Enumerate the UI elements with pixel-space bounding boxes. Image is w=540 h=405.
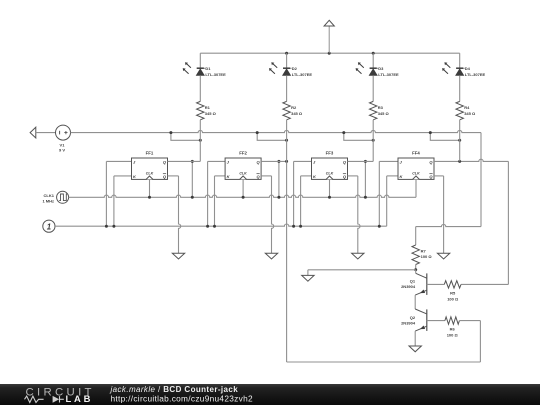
ground Qbar3 — [352, 253, 364, 259]
flip-flop FF3 — [312, 151, 348, 180]
svg-text:9 V: 9 V — [59, 148, 65, 153]
wire R7 bottom lead — [415, 265, 417, 270]
junction J2 rail — [206, 225, 209, 228]
resistor R3 — [370, 101, 377, 119]
svg-text:FF3: FF3 — [326, 151, 334, 156]
wire K2 input — [215, 175, 226, 177]
wire Q1 base lead — [427, 283, 445, 285]
svg-text:D2: D2 — [292, 66, 298, 71]
wire R6 right lead — [459, 320, 480, 322]
wire V1 tap jog stage 1 — [171, 133, 200, 141]
wire Q1 emitter to Q2 collector — [414, 295, 416, 309]
junction V1 tap 4b — [458, 139, 461, 142]
wire chain 1 lower — [199, 120, 201, 162]
ground mid (collector node) — [307, 270, 309, 276]
junction K3 rail — [299, 225, 302, 228]
LED D2 — [269, 62, 292, 75]
junction top rail at supply flag — [328, 52, 331, 55]
svg-text:100 Ω: 100 Ω — [421, 254, 433, 259]
svg-text:R2: R2 — [291, 105, 297, 110]
junction Q2 drop top — [277, 160, 280, 163]
resistor R5 — [444, 281, 461, 288]
junction V1 tap 1b — [199, 139, 202, 142]
svg-text:D1: D1 — [205, 66, 211, 71]
resistor R1 — [197, 101, 204, 119]
wire V1 rail drop right side — [480, 133, 482, 227]
wire clock riser FF4 — [415, 179, 417, 197]
wire chain 1 mid — [199, 75, 201, 101]
wire Q1 collector stub — [415, 270, 417, 274]
svg-text:FF1: FF1 — [146, 151, 154, 156]
wire K4 input — [387, 175, 398, 177]
junction clock FF3 — [328, 196, 331, 199]
wire R6 loop riser — [479, 321, 481, 362]
voltage source V1 — [56, 125, 71, 152]
junction Q3 drop top — [364, 160, 367, 163]
junction clock FF2 — [242, 196, 245, 199]
svg-text:R3: R3 — [378, 105, 384, 110]
svg-text:D4: D4 — [465, 66, 471, 71]
junction V1 tap 1a — [169, 131, 172, 134]
junction Q1 drop top — [191, 160, 194, 163]
wire bottom return — [287, 361, 481, 363]
wire J2 input — [208, 160, 226, 162]
junction V1 tap 4a — [429, 131, 432, 134]
junction top rail at D3 — [372, 52, 375, 55]
wire Q1 output — [168, 160, 201, 162]
junction Q2 / chain 2 — [285, 160, 288, 163]
wire logic-high rail (net 1) — [55, 224, 387, 226]
junction V1 tap 3b — [372, 139, 375, 142]
svg-text:Q2: Q2 — [410, 315, 416, 320]
wire chain 2 mid — [286, 75, 288, 101]
wire chain 3 upper — [372, 53, 374, 68]
svg-text:2N3904: 2N3904 — [401, 320, 416, 325]
wire V1 output rail — [71, 130, 482, 132]
wire clock stub FF2 — [242, 179, 244, 197]
wire R7 top lead — [415, 227, 417, 245]
wire Q3 to clock segment — [364, 161, 366, 197]
svg-text:LTL-307EE: LTL-307EE — [465, 72, 486, 77]
node flag 1 — [43, 220, 55, 232]
wire chain 1 upper — [199, 53, 201, 68]
junction V1 tap 2b — [285, 139, 288, 142]
svg-text:1: 1 — [47, 222, 51, 231]
wire J3 input — [294, 160, 312, 162]
transistor Q1 — [415, 273, 427, 295]
wire Q4 output to R5 loop — [434, 159, 508, 161]
junction J3 rail — [292, 225, 295, 228]
flip-flop FF1 — [132, 151, 168, 180]
flip-flop FF4 — [398, 151, 434, 180]
junction K1 rail — [112, 225, 115, 228]
wire chain 2 upper — [286, 53, 288, 68]
wire Qbar1 to ground — [168, 175, 179, 177]
svg-text:R4: R4 — [464, 105, 470, 110]
power flag (up arrow) — [324, 20, 334, 53]
svg-text:R1: R1 — [205, 105, 211, 110]
ground Qbar2 — [265, 253, 277, 259]
svg-text:CLK: CLK — [239, 172, 247, 176]
svg-text:345 Ω: 345 Ω — [464, 111, 476, 116]
svg-text:http://circuitlab.com/czu9nu42: http://circuitlab.com/czu9nu423zvh2 — [111, 393, 253, 403]
wire top supply rail — [200, 52, 459, 54]
logo icon resistor-diode — [25, 396, 60, 402]
wire clock stub FF1 — [149, 179, 151, 197]
svg-text:D3: D3 — [378, 66, 384, 71]
wire V1 tap jog stage 3 — [344, 133, 373, 141]
wire clock stub FF3 — [329, 179, 331, 197]
svg-text:2N3904: 2N3904 — [401, 284, 416, 289]
resistor R7 — [412, 245, 419, 265]
junction J1 rail — [105, 225, 108, 228]
resistor R2 — [283, 101, 290, 119]
wire J4 input — [379, 160, 398, 162]
junction V1 tap 3a — [342, 131, 345, 134]
svg-text:FF4: FF4 — [412, 151, 420, 156]
wire feed to R7 — [416, 224, 481, 226]
wire chain 3 mid — [372, 75, 374, 101]
junction J4 rail — [378, 225, 381, 228]
clock source CLK1 — [42, 191, 68, 203]
wire chain 4 upper — [459, 53, 461, 68]
ground Q2 emitter — [409, 346, 421, 352]
svg-text:LTL-307EE: LTL-307EE — [378, 72, 399, 77]
junction Q1 drop bottom — [191, 196, 194, 199]
junction clock FF1 — [148, 196, 151, 199]
svg-text:CLK: CLK — [326, 172, 334, 176]
wire Q2 emitter to ground — [414, 331, 416, 346]
svg-text:345 Ω: 345 Ω — [205, 111, 217, 116]
wire chain 2 lower — [286, 120, 288, 162]
svg-text:CLK1: CLK1 — [44, 193, 55, 198]
resistor R4 — [456, 101, 463, 119]
wire chain 4 lower — [459, 120, 461, 162]
svg-text:345 Ω: 345 Ω — [291, 111, 303, 116]
svg-text:LAB: LAB — [66, 393, 94, 404]
terminal flag at V1 (left arrow) — [30, 127, 36, 138]
svg-text:Q1: Q1 — [410, 279, 416, 284]
svg-text:R5: R5 — [450, 291, 456, 296]
wire chain 3 lower — [372, 120, 374, 162]
wire Qbar3 to ground — [348, 175, 358, 177]
resistor R6 — [445, 317, 460, 324]
junction Q3 drop bottom — [364, 196, 367, 199]
LED D1 — [183, 62, 206, 75]
svg-text:LTL-307EE: LTL-307EE — [292, 72, 313, 77]
svg-text:R7: R7 — [421, 248, 427, 253]
wire Q2 output — [261, 160, 287, 162]
transistor Q2 — [415, 309, 427, 331]
wire Q1 to clock segment — [191, 161, 193, 197]
wire collector node to ground stub — [308, 269, 416, 271]
svg-text:345 Ω: 345 Ω — [378, 111, 390, 116]
wire Qbar4 to ground — [434, 175, 444, 177]
svg-text:R6: R6 — [450, 327, 456, 332]
svg-text:1 MHz: 1 MHz — [42, 199, 54, 204]
svg-text:CLK: CLK — [412, 172, 420, 176]
wire Q3 output — [348, 160, 374, 162]
wire flag to V1 — [36, 132, 56, 134]
svg-text:100 Ω: 100 Ω — [447, 333, 459, 338]
wire R5 right lead — [461, 283, 508, 285]
svg-text:CLK: CLK — [146, 172, 154, 176]
ground Qbar1 — [172, 253, 184, 259]
ground Qbar4 — [437, 253, 449, 259]
wire right loop down to R5 — [507, 161, 509, 284]
wire Q2 base lead — [427, 320, 445, 322]
wire K3 input — [301, 175, 312, 177]
wire clock line — [69, 195, 416, 197]
wire V1 tap jog stage 4 — [430, 133, 459, 141]
LED D4 — [442, 62, 465, 75]
junction Q2 drop bottom — [277, 196, 280, 199]
svg-text:FF2: FF2 — [239, 151, 247, 156]
wire K1 input — [114, 175, 132, 177]
wire V1 tap jog stage 2 — [257, 133, 286, 141]
wire Q2 node to bottom loop — [286, 161, 288, 362]
flip-flop FF2 — [225, 151, 261, 180]
wire Qbar2 to ground — [261, 175, 271, 177]
wire Q2 to clock segment — [278, 161, 280, 197]
junction V1 tap 2a — [256, 131, 259, 134]
junction Q4 / chain 4 — [458, 160, 461, 163]
wire J1 input — [106, 160, 131, 162]
junction R7 / Q1 collector — [414, 268, 417, 271]
svg-text:LTL-307EE: LTL-307EE — [205, 72, 226, 77]
svg-text:100 Ω: 100 Ω — [447, 296, 459, 301]
junction K2 rail — [213, 225, 216, 228]
junction top rail at D2 — [285, 52, 288, 55]
wire chain 4 mid — [459, 75, 461, 101]
LED D3 — [356, 62, 379, 75]
